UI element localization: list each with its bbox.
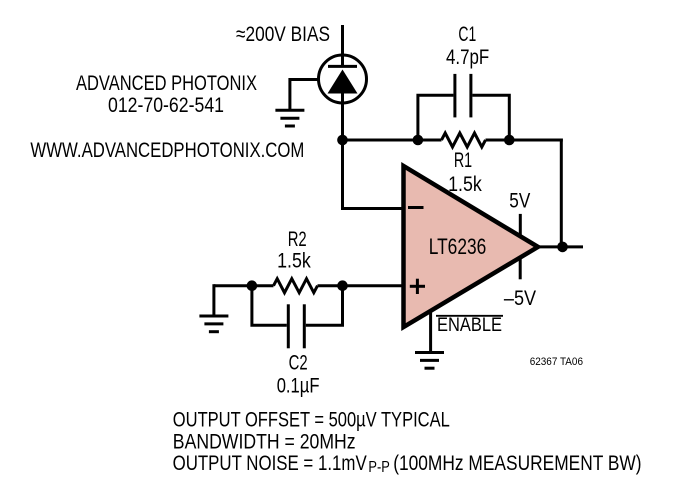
svg-text:5V: 5V	[509, 189, 531, 213]
svg-text:C1: C1	[458, 22, 476, 46]
svg-text:OUTPUT OFFSET = 500µV TYPICAL: OUTPUT OFFSET = 500µV TYPICAL	[173, 408, 450, 432]
svg-text:OUTPUT NOISE = 1.1mV: OUTPUT NOISE = 1.1mV	[173, 451, 368, 475]
svg-text:62367 TA06: 62367 TA06	[530, 356, 583, 368]
svg-text:LT6236: LT6236	[429, 234, 487, 259]
svg-text:R1: R1	[454, 148, 472, 172]
svg-text:(100MHz MEASUREMENT BW): (100MHz MEASUREMENT BW)	[393, 451, 641, 475]
svg-text:ADVANCED PHOTONIX: ADVANCED PHOTONIX	[76, 71, 257, 95]
svg-text:R2: R2	[288, 227, 307, 251]
svg-text:4.7pF: 4.7pF	[446, 45, 489, 69]
svg-text:P-P: P-P	[368, 459, 389, 476]
svg-text:1.5k: 1.5k	[277, 249, 311, 273]
svg-text:0.1µF: 0.1µF	[277, 374, 320, 398]
svg-text:C2: C2	[289, 351, 308, 375]
svg-text:ENABLE: ENABLE	[437, 315, 502, 336]
svg-text:BANDWIDTH = 20MHz: BANDWIDTH = 20MHz	[173, 429, 356, 453]
svg-text:1.5k: 1.5k	[448, 172, 482, 196]
svg-text:–5V: –5V	[504, 286, 537, 310]
svg-text:≈200V BIAS: ≈200V BIAS	[236, 22, 330, 46]
svg-text:012-70-62-541: 012-70-62-541	[108, 93, 224, 117]
svg-text:WWW.ADVANCEDPHOTONIX.COM: WWW.ADVANCEDPHOTONIX.COM	[30, 138, 304, 162]
